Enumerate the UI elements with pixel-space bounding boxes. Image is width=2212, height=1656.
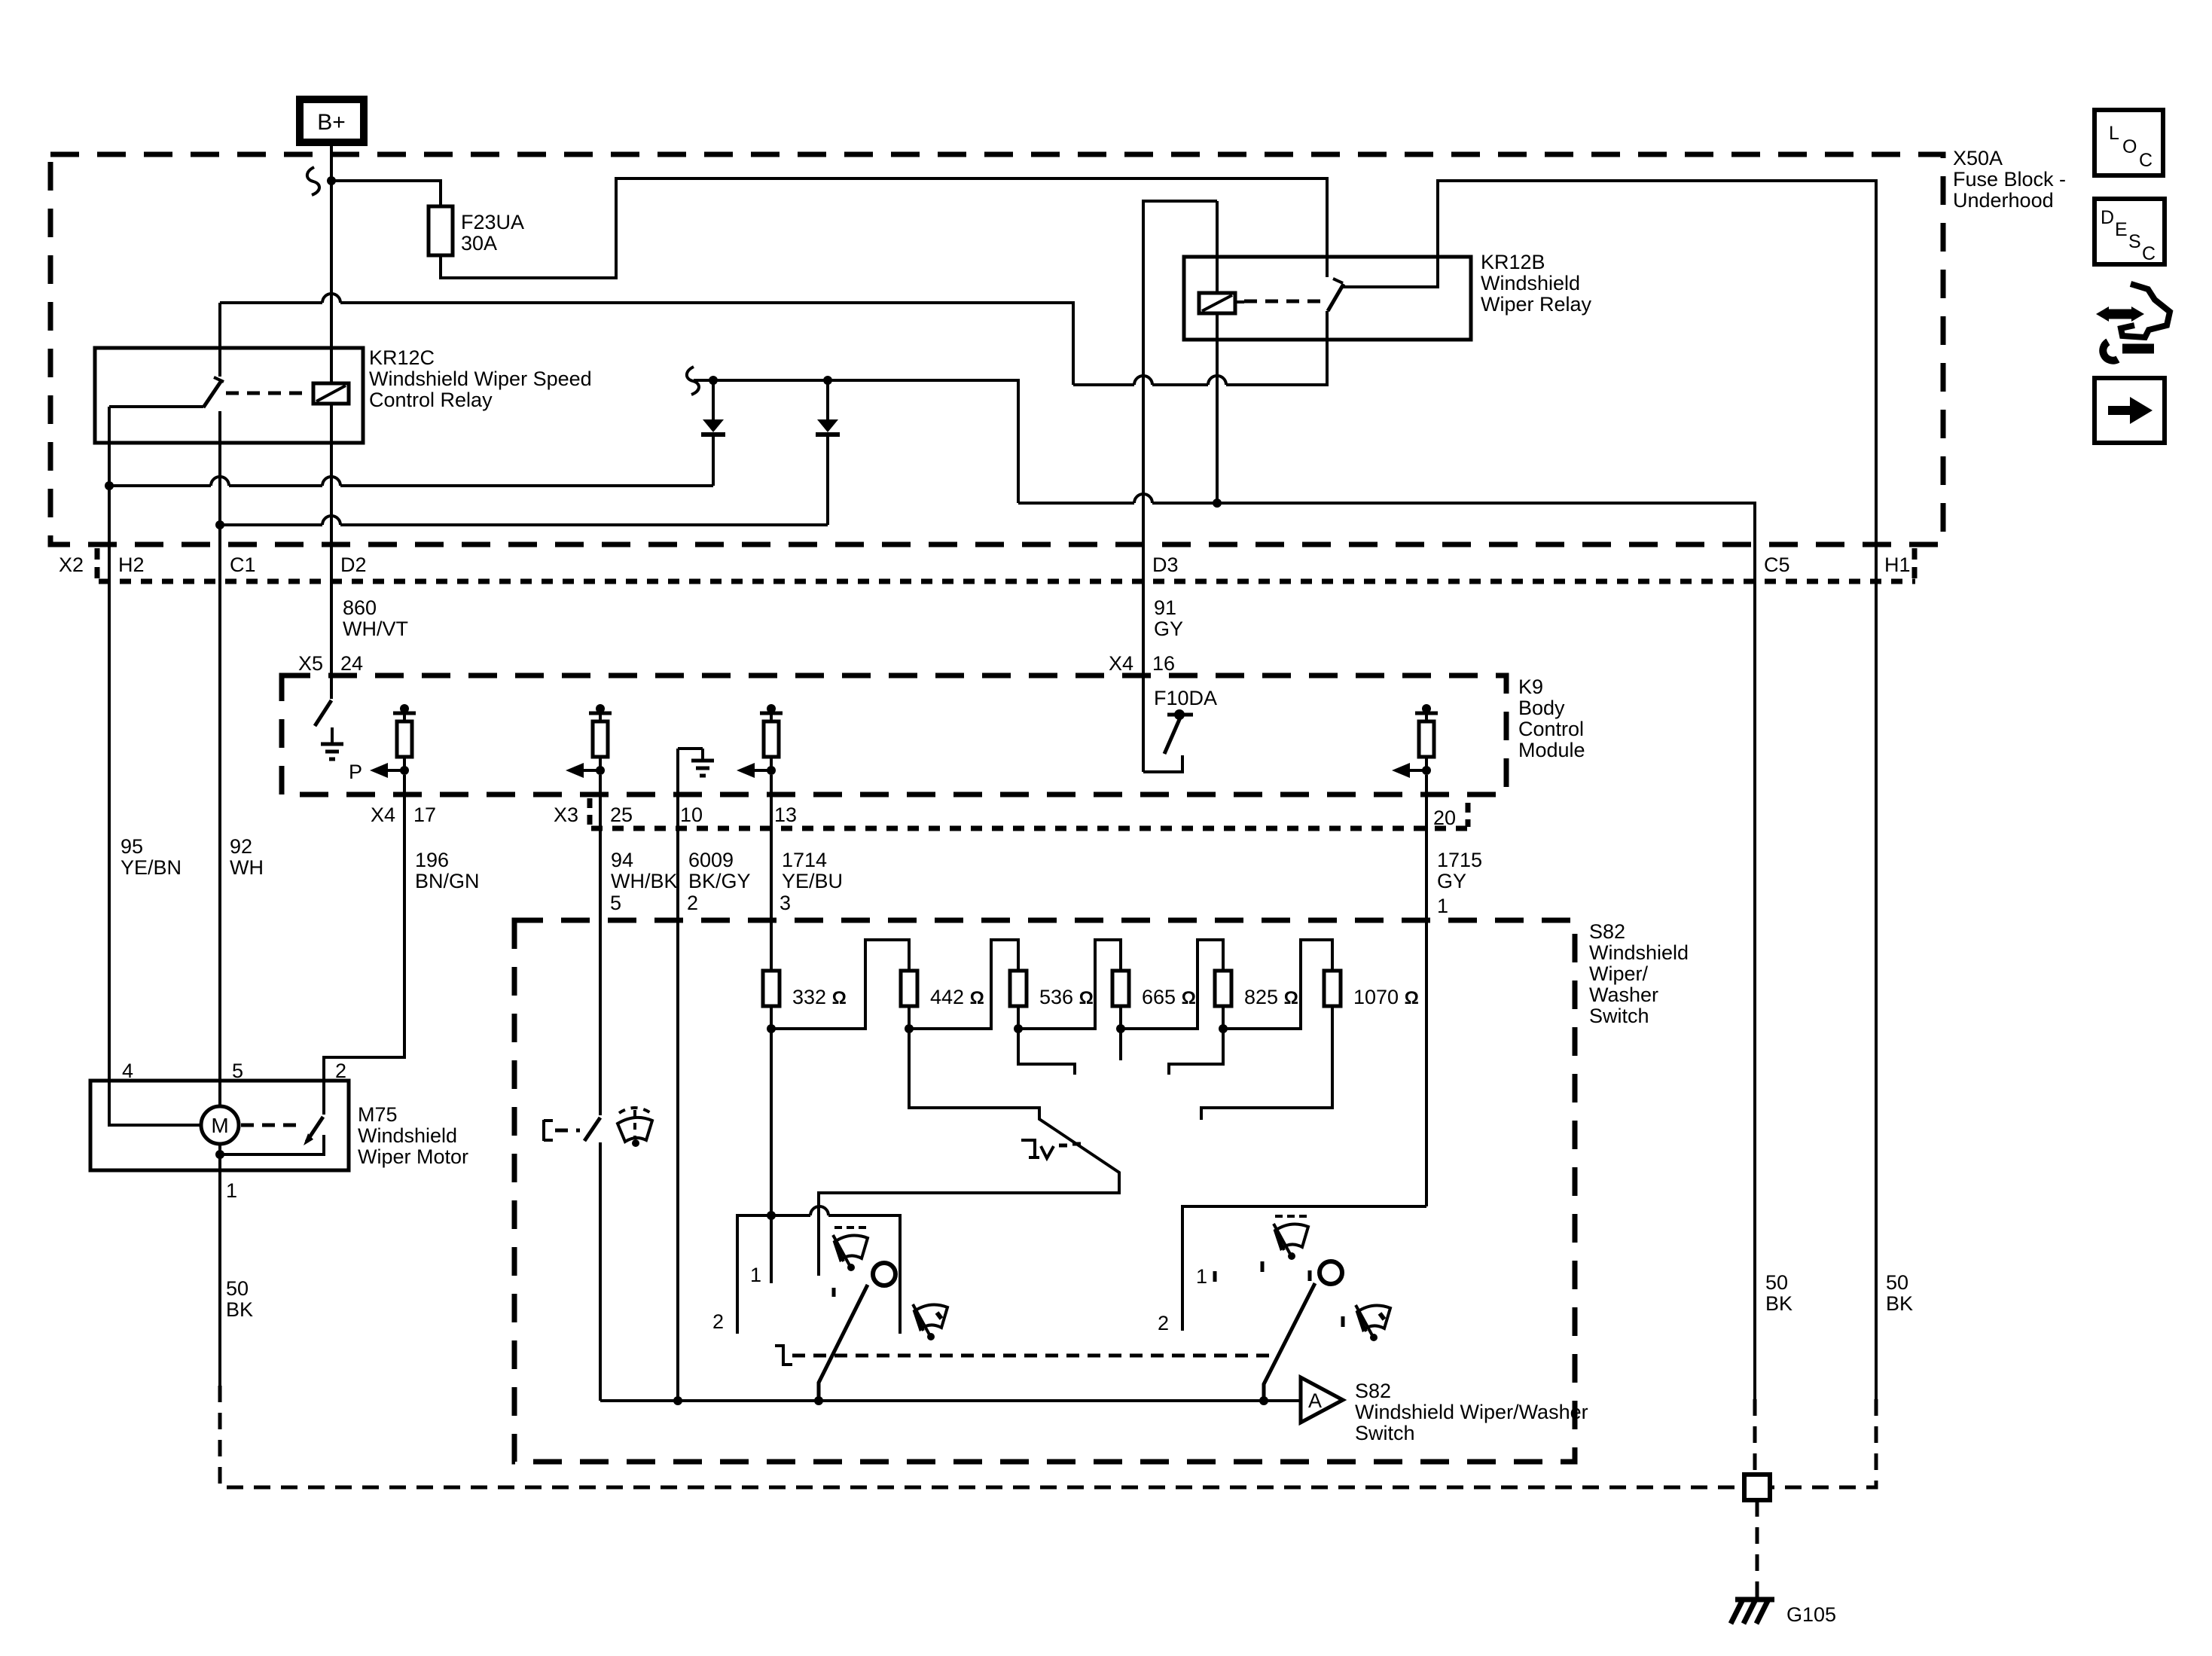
svg-text:Module: Module [1518,739,1585,761]
wire 332 bottom [770,1006,773,1215]
relay KR12B box [1184,257,1471,340]
wire 665 bottom [1119,1006,1122,1029]
svg-text:Wiper/: Wiper/ [1589,962,1649,985]
wire 94 WH/BK column [599,775,602,1115]
svg-text:536 Ω: 536 Ω [1039,986,1094,1008]
svg-text:94: 94 [611,849,633,871]
svg-text:Windshield: Windshield [1589,941,1689,964]
svg-text:YE/BN: YE/BN [121,856,182,879]
icon LOC box [2095,110,2163,175]
switch blade X5-24 [315,700,331,726]
svg-text:91: 91 [1154,596,1176,619]
svg-text:H2: H2 [118,554,145,576]
svg-text:A: A [1308,1389,1322,1412]
relay KR12C box [95,348,363,443]
label X4 16 [1109,652,1175,675]
svg-text:1714: 1714 [782,849,827,871]
label S82 Windshield Wiper/Washer Switch (bottom) [1355,1380,1588,1444]
svg-text:196: 196 [415,849,449,871]
wire 196 BN/GN column [324,775,404,1115]
switch blade KR12C [203,382,221,407]
svg-text:D: D [2101,207,2114,228]
svg-text:E: E [2115,219,2128,240]
svg-text:O: O [2122,136,2137,157]
svg-text:16: 16 [1152,652,1175,675]
dashed wire 50 BK to splice [220,1386,1744,1487]
svg-text:Fuse Block -: Fuse Block - [1953,168,2066,191]
contact tick left rotary [832,1288,836,1297]
svg-text:1: 1 [750,1264,761,1286]
current tap curl at B+ [307,167,319,195]
svg-text:1715: 1715 [1437,849,1482,871]
wire 536 position stub [1018,1029,1075,1075]
label X5 24 [298,652,363,675]
switch blade right rotary [1264,1283,1315,1401]
dashed link motor to park switch [241,1124,304,1127]
svg-text:Windshield Wiper Speed: Windshield Wiper Speed [369,367,592,390]
svg-text:50: 50 [1886,1271,1908,1294]
icon washer spray [618,1108,652,1147]
svg-text:X5: X5 [298,652,323,675]
icon forward arrow box [2095,378,2165,443]
label 50 BK motor [226,1277,253,1321]
wire diode1 to H2 rail [109,486,713,544]
wire 1714 pin1 stub [770,1215,773,1283]
gate A triangle [1301,1377,1343,1423]
bracket right rotary contacts [1182,1206,1426,1331]
wire 92 WH C1 column [218,544,221,1107]
svg-text:BK: BK [226,1298,253,1321]
dashed wire H1 to splice [1770,1399,1876,1487]
wire fuse bottom to KR12B feed [441,178,1327,278]
svg-text:L: L [2109,123,2119,144]
svg-text:1: 1 [1196,1265,1207,1288]
svg-text:X4: X4 [371,804,395,826]
svg-text:X2: X2 [59,554,84,576]
wire motor pin1 50 BK [218,1144,221,1386]
svg-text:Switch: Switch [1589,1005,1649,1027]
svg-text:C: C [2142,243,2156,264]
splice block [1744,1475,1770,1500]
label 1714 YE/BU [782,849,843,892]
pivot circle right rotary [1320,1261,1342,1284]
wire KR12B NO output to H1 [1343,181,1876,1399]
label 860 WH/VT [343,596,408,640]
wire diode top rail [694,380,1018,503]
connector 20 terminator [1466,803,1471,827]
label X4 17 [371,804,436,826]
module K9 BCM box [282,676,1506,794]
svg-text:WH/BK: WH/BK [611,870,678,892]
icon wiper mode right top [1274,1216,1308,1260]
svg-text:M75: M75 [358,1103,398,1126]
svg-text:C: C [2139,150,2153,171]
svg-text:Switch: Switch [1355,1422,1415,1444]
resistor 332 [763,971,780,1006]
dashed mechanical link [792,1354,1271,1358]
icon DESC box [2095,199,2165,264]
glyph variable-delay symbol [1021,1140,1081,1158]
washer switch upper wire [599,920,602,1115]
svg-text:GY: GY [1154,618,1183,640]
wire hop D2 on H2 rail [322,477,340,486]
park switch blade [307,1117,323,1142]
node 665 bottom [1116,1024,1125,1033]
label S82 Windshield Wiper/Washer Switch (top right) [1589,920,1689,1027]
ground G105 [1731,1600,1774,1624]
svg-text:K9: K9 [1518,676,1543,698]
connector X3 row line [591,826,1468,831]
svg-text:Windshield: Windshield [358,1124,457,1147]
node 536 bottom [1014,1024,1023,1033]
svg-text:KR12B: KR12B [1481,251,1545,273]
svg-text:D3: D3 [1152,554,1179,576]
wire coil rail to C5 [1018,503,1755,1399]
wire 1070 position stub [1201,1006,1332,1120]
node left blade on bus [814,1396,823,1405]
pivot circle left rotary [873,1263,895,1285]
svg-text:13: 13 [774,804,797,826]
wire KR12C NC feed (y=402 run) [220,303,1327,385]
svg-text:332 Ω: 332 Ω [792,986,847,1008]
coil KR12C [313,383,349,404]
label 6009 BK/GY [688,849,751,892]
svg-text:25: 25 [610,804,633,826]
node KR12B coil bottom [1213,499,1222,508]
svg-text:Windshield: Windshield [1481,272,1580,294]
wire 6009 BK/GY column [676,749,679,1401]
node diode2 top [823,376,832,385]
svg-text:17: 17 [413,804,436,826]
motor M circle [201,1106,239,1144]
node H2 junction [105,481,114,490]
label X3 25 [554,804,633,826]
driver output 20 [1392,704,1438,778]
svg-text:F23UA: F23UA [461,211,524,233]
svg-text:5: 5 [610,892,621,914]
svg-text:C5: C5 [1764,554,1790,576]
svg-text:Windshield Wiper/Washer: Windshield Wiper/Washer [1355,1401,1588,1423]
contact tick KR12C [214,377,224,382]
wire 442 bottom [908,1006,911,1029]
connector H1 terminator [1912,548,1918,580]
wire hop D2 on C1 rail [322,516,340,525]
label 95 YE/BN [121,835,182,879]
svg-text:S82: S82 [1355,1380,1391,1402]
svg-text:Wiper Motor: Wiper Motor [358,1145,468,1168]
coil KR12B [1199,293,1244,313]
connector X3 terminator [587,798,593,825]
icon wiper int right [1356,1305,1390,1341]
svg-text:50: 50 [226,1277,249,1300]
wire hop D3 on coil rail [1134,494,1152,503]
svg-text:30A: 30A [461,232,497,255]
current tap curl at diode feed [687,367,699,395]
label 1715 GY [1437,849,1482,892]
diode D2 [816,380,840,525]
svg-text:X4: X4 [1109,652,1133,675]
svg-text:Control Relay: Control Relay [369,389,493,411]
svg-text:2: 2 [712,1310,724,1333]
glyph link hook [775,1346,792,1365]
label KR12B Windshield Wiper Relay [1481,251,1592,316]
contact tick right 4 [1341,1316,1345,1327]
svg-text:H1: H1 [1884,554,1911,576]
wire ladder jog to 825 [1121,940,1223,1029]
dashed wire C5 to splice [1753,1399,1757,1475]
svg-text:1: 1 [1437,895,1448,917]
motor M75 box [90,1081,349,1170]
contact tick KR12B [1333,279,1343,283]
svg-text:B+: B+ [317,110,346,135]
wire 1715 GY column [1425,775,1428,1206]
svg-text:C1: C1 [230,554,256,576]
svg-text:X50A: X50A [1953,147,2003,169]
node right blade on bus [1259,1396,1268,1405]
resistor 1070 [1324,971,1341,1006]
connector X2 terminator [95,548,100,580]
dashed wire splice to ground [1756,1500,1759,1600]
driver output X3-25 [566,704,612,778]
switch X5-24 inside BCM [330,676,333,699]
label X50A Fuse Block - Underhood [1953,147,2066,212]
fuse F23UA [429,206,453,255]
svg-text:95: 95 [121,835,143,858]
dashed link KR12B coil-blade [1244,300,1321,303]
node 442 bottom [905,1024,914,1033]
node 332 bottom [767,1024,776,1033]
wire 50 BK H1 column labels [1886,1271,1913,1315]
label 91 GY [1154,596,1183,640]
contact tick right 1 [1213,1271,1217,1282]
node 1714 on bracket [767,1211,776,1220]
svg-text:2: 2 [687,892,698,914]
node motor bottom [215,1150,224,1159]
svg-text:D2: D2 [340,554,367,576]
svg-text:1: 1 [226,1179,237,1202]
wire hop over D3 wire [1134,376,1152,385]
svg-text:Body: Body [1518,697,1565,719]
park switch lower stub [220,1135,324,1154]
svg-text:X3: X3 [554,804,578,826]
svg-text:BK: BK [1765,1292,1792,1315]
diode D1 [701,380,725,486]
svg-text:442 Ω: 442 Ω [930,986,984,1008]
svg-text:WH: WH [230,856,264,879]
wire 95 YE/BN H2 column [109,544,202,1125]
wire ladder jog to 442 [771,940,909,1029]
wire 825 position stub [1169,1029,1223,1075]
svg-text:1070 Ω: 1070 Ω [1353,986,1419,1008]
svg-text:WH/VT: WH/VT [343,618,408,640]
node 6009 on bus [673,1396,682,1405]
switch S82 box [514,920,1575,1462]
svg-text:860: 860 [343,596,377,619]
svg-text:BK/GY: BK/GY [688,870,751,892]
svg-text:S: S [2128,231,2141,252]
svg-text:92: 92 [230,835,252,858]
power box B+ [300,99,364,142]
svg-text:G105: G105 [1786,1603,1836,1626]
node diode1 top [709,376,718,385]
washer switch lower wire to bus [599,1142,602,1401]
wire junction to fuse F23UA [331,181,441,206]
fuse F10DA symbol [1143,709,1193,772]
wire 536 bottom [1017,1006,1020,1029]
icon wiper int left [913,1304,947,1340]
switch blade left rotary [819,1285,868,1401]
svg-text:Wiper Relay: Wiper Relay [1481,293,1592,316]
wire KR12C switch lower contact to C1 [218,411,221,525]
wire 1714 YE/BU column [770,775,773,971]
wire KR12B coil top to D3 [1143,201,1217,772]
label K9 Body Control Module [1518,676,1585,761]
svg-text:KR12C: KR12C [369,346,435,369]
ground symbol inside BCM left [321,727,343,759]
bracket left rotary contacts [737,1215,900,1334]
wire ladder jog to 665 [1018,940,1121,1029]
wire KR12C common to H2 [109,407,203,486]
label M75 Windshield Wiper Motor [358,1103,468,1168]
wire 665 position stub [1119,1029,1122,1060]
label F23UA 30A [461,211,524,255]
wire ladder jog to 1070 [1223,940,1332,1029]
svg-text:BN/GN: BN/GN [415,870,480,892]
svg-text:665 Ω: 665 Ω [1142,986,1196,1008]
svg-text:825 Ω: 825 Ω [1244,986,1298,1008]
svg-text:S82: S82 [1589,920,1625,943]
label 196 BN/GN [415,849,480,892]
washer switch blade [584,1118,600,1141]
switch blade KR12B [1328,284,1344,311]
dashed link KR12C coil-blade [226,392,309,395]
resistor 825 [1215,971,1231,1006]
resistor 665 [1112,971,1129,1006]
wire bus bottom common [600,1399,1299,1402]
wire hop over KR12B coil wire [1208,376,1226,385]
svg-text:BK: BK [1886,1292,1913,1315]
connector row top dash (shared with X50A bottom) [99,579,1915,584]
fuse block X50A box [50,154,1943,544]
wire hop C1 on H2 rail [211,477,229,486]
wire KR12C fixed contact [218,303,221,377]
node B+ junction [327,176,336,185]
label 92 WH [230,835,264,879]
svg-text:Control: Control [1518,718,1584,740]
driver output X4-17 [370,704,416,778]
svg-text:3: 3 [780,892,791,914]
svg-text:Washer: Washer [1589,984,1658,1006]
wire hop over bracket top [810,1206,828,1215]
icon wiper mode left top [833,1228,868,1271]
park switch blade arrowhead [304,1133,313,1145]
svg-text:2: 2 [1158,1312,1169,1334]
svg-text:M: M [211,1114,228,1137]
svg-text:P: P [349,761,362,783]
wire ladder jog to 536 [909,940,1018,1029]
svg-text:24: 24 [340,652,363,675]
glyph washer pump E [544,1120,580,1141]
svg-text:50: 50 [1765,1271,1788,1294]
wire hop over B+ wire [322,294,340,303]
svg-text:Underhood: Underhood [1953,189,2054,212]
node C1 junction [215,520,224,529]
svg-text:YE/BU: YE/BU [782,870,843,892]
contact tick right 2 [1261,1261,1265,1272]
resistor 442 [901,971,917,1006]
label 94 WH/BK [611,849,678,892]
wire B+ vertical to KR12C coil [330,142,333,676]
label KR12C Windshield Wiper Speed Control Relay [369,346,592,411]
svg-text:10: 10 [680,804,703,826]
resistor 536 [1010,971,1027,1006]
svg-text:GY: GY [1437,870,1466,892]
icon repair doc [2096,284,2170,361]
wire 442 stub to wiper feed dome [819,1029,1119,1276]
wire 50 BK C5 column labels [1765,1271,1792,1315]
wire diode2 to C1 rail [220,525,828,544]
ground link 6009 inside BCM [678,749,714,776]
svg-text:F10DA: F10DA [1154,687,1217,709]
node 825 bottom [1219,1024,1228,1033]
contact tick right 3 [1308,1270,1312,1281]
driver output 13 [737,704,783,778]
wire 825 bottom [1222,1006,1225,1029]
wire KR12B coil column [1216,201,1219,503]
svg-text:6009: 6009 [688,849,734,871]
